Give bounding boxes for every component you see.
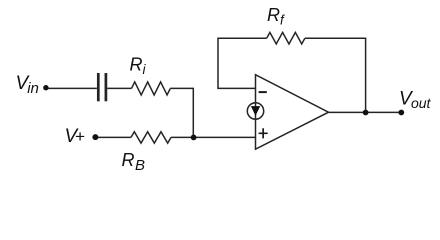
svg-text:Vin: Vin [16, 73, 39, 97]
svg-text:Rf: Rf [267, 5, 285, 28]
svg-text:RB: RB [122, 150, 146, 174]
svg-text:Vout: Vout [399, 88, 432, 111]
svg-text:V+: V+ [65, 126, 85, 147]
svg-text:Ri: Ri [130, 55, 147, 78]
